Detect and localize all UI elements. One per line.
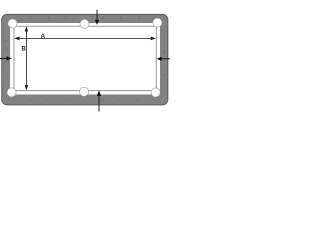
- sight dot right rail 1: [163, 39, 165, 41]
- arrowhead A right: [151, 37, 156, 41]
- sight dot bottom rail 2: [47, 99, 49, 101]
- sight dot bottom rail 6: [137, 99, 139, 101]
- arrowhead A left: [14, 37, 19, 41]
- svg-text:B: B: [21, 46, 26, 53]
- sight dot top rail 1: [30, 17, 32, 19]
- sight dot top rail 5: [120, 17, 122, 19]
- dimension line A (horizontal): [19, 37, 152, 39]
- pocket bottom-left: [7, 88, 16, 97]
- pocket top-right: [153, 18, 162, 27]
- sight dot right rail 3: [163, 74, 165, 76]
- pointer arrow bottom (up): [98, 96, 100, 112]
- sight dot top rail 3: [65, 17, 67, 19]
- dimension line B (vertical): [25, 31, 27, 86]
- inner cutout (cushion band + playing surface, white): [10, 23, 160, 95]
- pointer arrow top (down): [96, 10, 98, 21]
- sight dot top rail 2: [48, 17, 50, 19]
- sight dot left rail 3: [5, 74, 7, 76]
- pocket top-left: [8, 19, 17, 28]
- pointer arrow left (right-pointing): [0, 57, 7, 59]
- sight dot bottom rail 1: [29, 99, 31, 101]
- pocket bottom-right: [151, 88, 160, 97]
- sight dot top rail 6: [138, 17, 140, 19]
- cushion nose line rectangle: [14, 26, 156, 91]
- pointer arrow right (left-pointing): [161, 58, 170, 60]
- sight dot top rail 4: [102, 17, 104, 19]
- sight dot bottom rail 5: [119, 99, 121, 101]
- sight dot bottom rail 3: [66, 99, 68, 101]
- sight dot left rail 2: [5, 48, 7, 50]
- arrowhead B bottom: [25, 85, 29, 90]
- sight dot right rail 2: [163, 52, 165, 54]
- svg-text:A: A: [41, 33, 46, 40]
- sight dot bottom rail 4: [101, 99, 103, 101]
- table rail frame (outer gray rounded rect): [2, 14, 168, 105]
- arrowhead B top: [25, 26, 29, 31]
- pocket top-middle: [80, 19, 89, 28]
- sight dot left rail 1: [5, 40, 7, 42]
- pocket bottom-middle: [80, 87, 89, 96]
